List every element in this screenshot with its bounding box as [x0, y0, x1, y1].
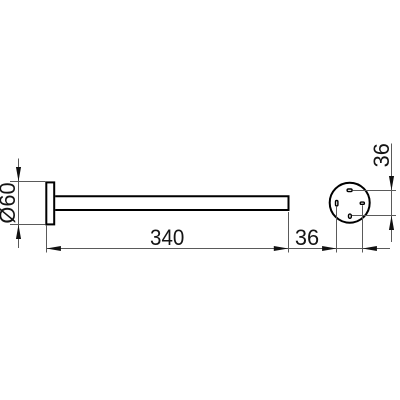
- dim Ø60: extension line top: [10, 181, 45, 183]
- svg-text:Ø60: Ø60: [0, 182, 20, 223]
- arrow Ø60 top (points down): [16, 167, 21, 181]
- dim 36 bottom: extension line from left slot: [336, 207, 338, 253]
- dim 340/36: dimension line: [47, 248, 391, 250]
- arrow Ø60 bottom (points up): [16, 225, 21, 239]
- svg-text:340: 340: [150, 225, 184, 250]
- arrow 340 left (points left): [47, 246, 61, 251]
- dim 340: extension line left: [46, 226, 48, 253]
- dim Ø60: dimension line: [18, 159, 20, 249]
- dim 36 right: extension line from bottom slot: [352, 215, 396, 217]
- dim 36 right: dimension line: [391, 144, 393, 243]
- slot right: [360, 202, 364, 204]
- slot top: [347, 189, 352, 192]
- arrow 36 right bottom (points up): [389, 216, 394, 230]
- slot left: [336, 201, 338, 206]
- wall plate (side view): [46, 182, 54, 224]
- dim 340: extension line right (bar end): [288, 212, 290, 253]
- arrow 36 bottom left (points right): [322, 246, 336, 251]
- slot bottom: [349, 214, 352, 218]
- svg-text:36: 36: [295, 225, 319, 250]
- arrow 36 bottom right (points left): [363, 246, 377, 251]
- dim Ø60: extension line bottom: [10, 224, 45, 226]
- towel bar (side view): [55, 196, 288, 210]
- svg-text:36: 36: [369, 143, 394, 167]
- arrow 340 right (points right): [274, 246, 288, 251]
- mounting plate (front view circle): [330, 183, 370, 223]
- arrow 36 right top (points down): [389, 176, 394, 190]
- dim 36 bottom: extension line from right slot: [362, 205, 364, 252]
- dim 36 right: extension line from top slot: [353, 190, 396, 192]
